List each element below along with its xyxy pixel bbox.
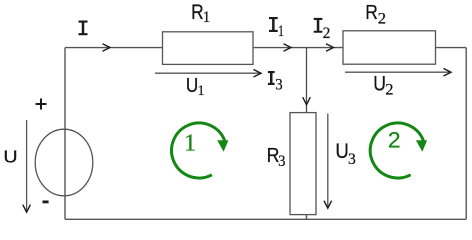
svg-text:2: 2 (378, 10, 386, 27)
svg-text:3: 3 (275, 76, 283, 94)
svg-text:2: 2 (388, 127, 401, 153)
svg-text:1: 1 (184, 130, 196, 157)
svg-text:U: U (335, 140, 348, 163)
resistor R1 (163, 32, 254, 65)
svg-text:U: U (186, 74, 198, 97)
svg-text:1: 1 (278, 22, 284, 39)
current arrow I (103, 44, 111, 52)
label R1 (191, 2, 210, 26)
label I (79, 21, 88, 36)
svg-text:2: 2 (385, 81, 393, 99)
svg-text:3: 3 (348, 151, 356, 168)
wire junction node to R2 (307, 47, 344, 49)
label I1 (269, 17, 284, 39)
wire bottom (65, 218, 466, 220)
mesh loop 1 (172, 123, 229, 178)
mesh label 2 (388, 127, 401, 153)
current arrow I1 (284, 44, 292, 52)
label U1 (186, 74, 205, 100)
label U3 (335, 140, 356, 168)
svg-text:R: R (365, 2, 378, 25)
label U (3, 146, 17, 166)
polarity label - (43, 200, 49, 203)
svg-text:U: U (3, 146, 17, 166)
svg-text:1: 1 (203, 9, 211, 26)
svg-text:3: 3 (278, 152, 286, 170)
wire right side (465, 48, 467, 220)
label U2 (373, 73, 393, 98)
voltage arrow U3 (324, 114, 332, 209)
mesh label 1 (184, 130, 196, 157)
wire top-left segment (65, 47, 163, 49)
current arrow I2 (326, 44, 334, 52)
wire R3 to bottom (306, 215, 308, 220)
label R2 (365, 2, 386, 28)
svg-text:U: U (373, 73, 386, 96)
resistor R2 (343, 31, 436, 64)
voltage arrow U (23, 120, 31, 212)
polarity label + (36, 99, 47, 110)
voltage arrow U1 (155, 69, 261, 77)
label I3 (268, 71, 283, 93)
mesh loop 2 (370, 123, 427, 178)
voltage source U (35, 129, 93, 196)
voltage arrow U2 (345, 68, 451, 76)
label I2 (314, 18, 331, 42)
svg-text:2: 2 (323, 25, 331, 42)
wire left side (64, 48, 66, 220)
wire junction down to R3 with current arrow I3 (303, 48, 311, 113)
wire R1 to junction node (253, 47, 307, 49)
wire R2 to top-right corner (436, 47, 467, 49)
label R3 (267, 145, 286, 170)
resistor R3 (290, 113, 316, 215)
svg-text:1: 1 (198, 83, 205, 99)
